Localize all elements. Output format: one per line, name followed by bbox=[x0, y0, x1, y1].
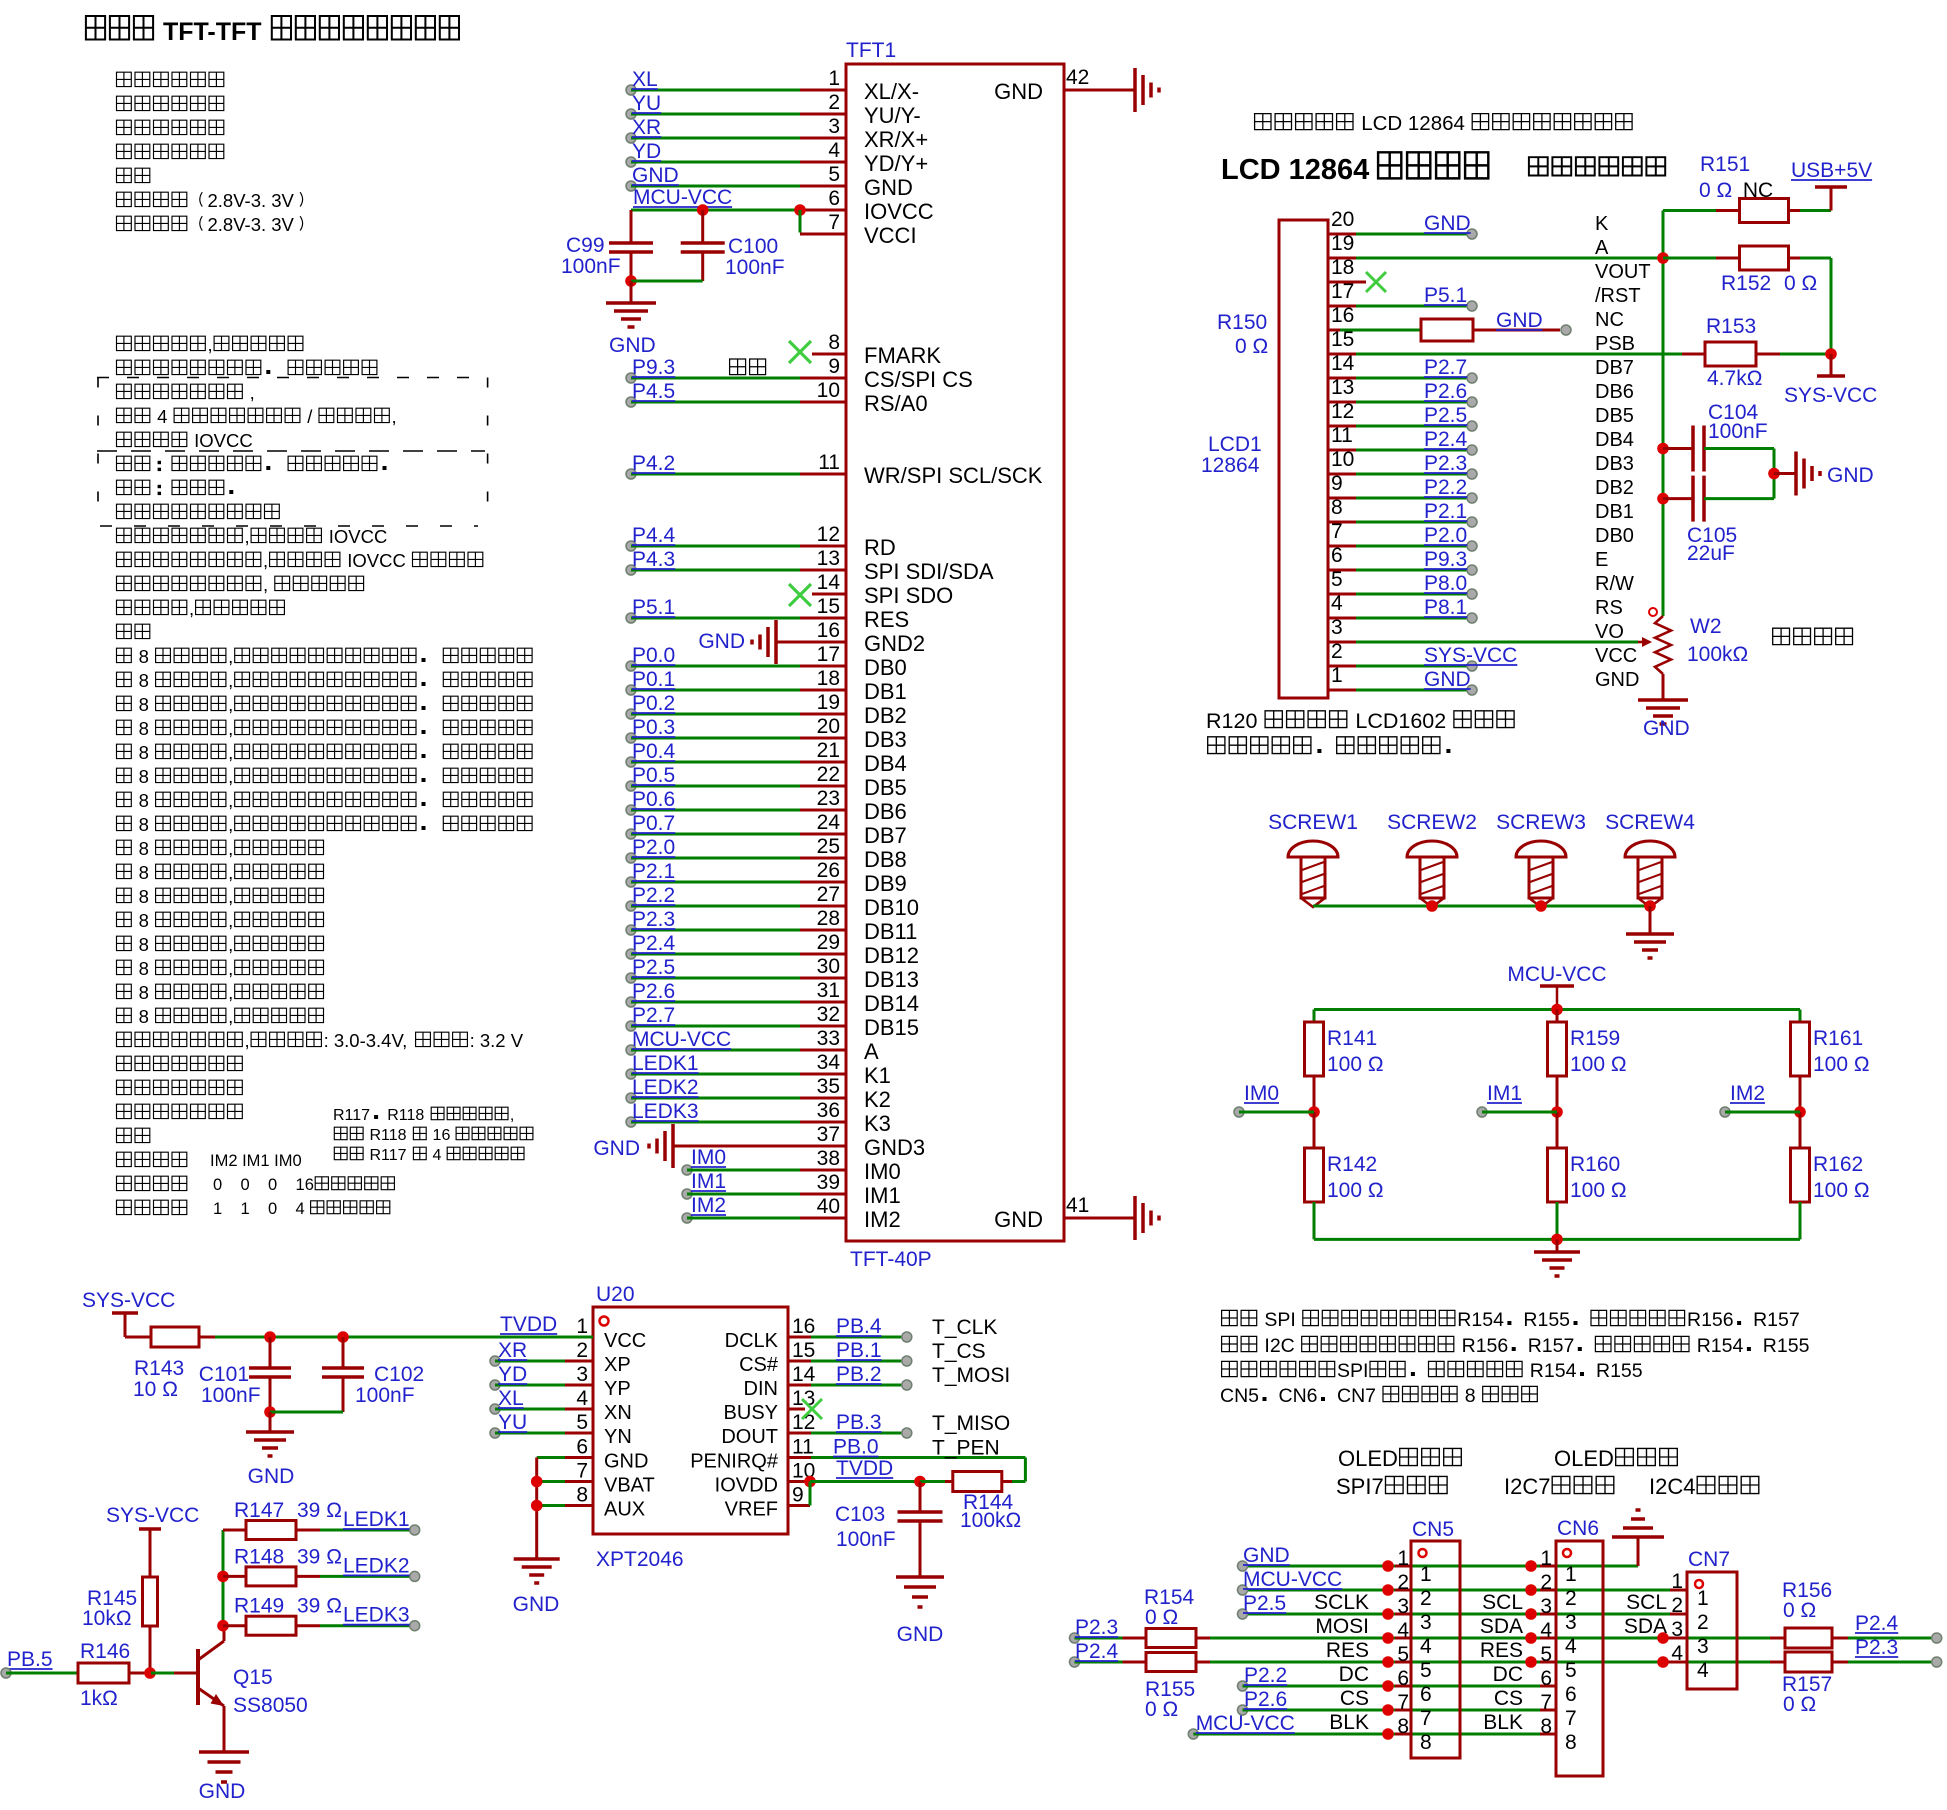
svg-text:K2: K2 bbox=[864, 1087, 891, 1112]
svg-text:5: 5 bbox=[1420, 1659, 1432, 1682]
svg-text:100kΩ: 100kΩ bbox=[960, 1509, 1021, 1532]
svg-text:,: , bbox=[228, 886, 233, 907]
svg-text:,: , bbox=[263, 574, 273, 595]
svg-text:,: , bbox=[228, 766, 233, 787]
svg-text:TFT-40P: TFT-40P bbox=[850, 1248, 932, 1271]
svg-text:11: 11 bbox=[792, 1436, 814, 1459]
svg-text:/RST: /RST bbox=[1595, 285, 1641, 307]
svg-text:VO: VO bbox=[1595, 621, 1624, 643]
svg-text:T_CLK: T_CLK bbox=[932, 1316, 997, 1339]
svg-text:0 0 0 16: 0 0 0 16 bbox=[213, 1176, 314, 1194]
svg-text:10kΩ: 10kΩ bbox=[82, 1607, 132, 1630]
svg-text:IM0: IM0 bbox=[864, 1159, 901, 1184]
svg-text:DB3: DB3 bbox=[1595, 453, 1634, 475]
svg-text:LEDK3: LEDK3 bbox=[343, 1604, 410, 1627]
svg-text:16: 16 bbox=[817, 619, 840, 642]
svg-text:P9.3: P9.3 bbox=[1424, 548, 1467, 571]
svg-text:P0.5: P0.5 bbox=[632, 764, 675, 787]
svg-text:GND: GND bbox=[897, 1623, 944, 1646]
svg-text:16: 16 bbox=[428, 1127, 455, 1144]
svg-text:DB4: DB4 bbox=[1595, 429, 1634, 451]
svg-text:4: 4 bbox=[428, 1147, 446, 1164]
svg-text:YD/Y+: YD/Y+ bbox=[864, 151, 928, 176]
svg-text:P0.2: P0.2 bbox=[632, 692, 675, 715]
svg-text:IOVCC: IOVCC bbox=[864, 199, 934, 224]
svg-text:GND2: GND2 bbox=[864, 631, 925, 656]
svg-text:P0.4: P0.4 bbox=[632, 740, 676, 763]
svg-text:P2.4: P2.4 bbox=[1424, 428, 1468, 451]
svg-text:XP: XP bbox=[604, 1354, 631, 1376]
svg-text:7: 7 bbox=[1565, 1707, 1577, 1730]
svg-text:DB12: DB12 bbox=[864, 943, 919, 968]
svg-text:39: 39 bbox=[817, 1171, 840, 1194]
svg-text:R/W: R/W bbox=[1595, 573, 1634, 595]
svg-text:3: 3 bbox=[1540, 1595, 1552, 1618]
svg-text:MCU-VCC: MCU-VCC bbox=[632, 1028, 731, 1051]
svg-text:24: 24 bbox=[817, 811, 841, 834]
svg-text:RS: RS bbox=[1595, 597, 1623, 619]
svg-text:R150: R150 bbox=[1217, 311, 1267, 334]
svg-text:13: 13 bbox=[817, 547, 840, 570]
svg-text:SYS-VCC: SYS-VCC bbox=[106, 1504, 199, 1527]
svg-text:P2.4: P2.4 bbox=[1075, 1640, 1119, 1663]
svg-text:8: 8 bbox=[134, 646, 155, 667]
svg-text:1: 1 bbox=[576, 1315, 588, 1338]
svg-text:9: 9 bbox=[792, 1484, 804, 1507]
svg-text:DB0: DB0 bbox=[864, 655, 907, 680]
svg-text:,: , bbox=[228, 742, 233, 763]
svg-text:4: 4 bbox=[1540, 1619, 1552, 1642]
svg-text:P2.7: P2.7 bbox=[632, 1004, 675, 1027]
svg-text:DC: DC bbox=[1339, 1663, 1369, 1686]
svg-text:Q15: Q15 bbox=[233, 1666, 273, 1689]
svg-text:42: 42 bbox=[1066, 66, 1089, 89]
svg-text:MCU-VCC: MCU-VCC bbox=[633, 186, 732, 209]
svg-text:100 Ω: 100 Ω bbox=[1570, 1179, 1627, 1202]
svg-text:21: 21 bbox=[817, 739, 840, 762]
svg-text:P8.1: P8.1 bbox=[1424, 596, 1467, 619]
svg-text:GND3: GND3 bbox=[864, 1135, 925, 1160]
svg-text:8: 8 bbox=[134, 1006, 155, 1027]
svg-text:SYS-VCC: SYS-VCC bbox=[82, 1289, 175, 1312]
svg-text:DB1: DB1 bbox=[864, 679, 907, 704]
svg-text:6: 6 bbox=[1540, 1667, 1552, 1690]
svg-text:SYS-VCC: SYS-VCC bbox=[1424, 644, 1517, 667]
svg-text:DB0: DB0 bbox=[1595, 525, 1634, 547]
svg-text:25: 25 bbox=[817, 835, 840, 858]
svg-text:4: 4 bbox=[1397, 1619, 1409, 1642]
svg-text:2: 2 bbox=[1697, 1611, 1709, 1634]
svg-text:GND: GND bbox=[1496, 309, 1543, 332]
svg-text:WR/SPI SCL/SCK: WR/SPI SCL/SCK bbox=[864, 463, 1043, 488]
svg-text:SPI SDO: SPI SDO bbox=[864, 583, 953, 608]
svg-text:MCU-VCC: MCU-VCC bbox=[1243, 1568, 1342, 1591]
svg-text:T_CS: T_CS bbox=[932, 1340, 986, 1363]
svg-text:1: 1 bbox=[828, 67, 840, 90]
svg-text:100 Ω: 100 Ω bbox=[1327, 1179, 1384, 1202]
svg-text:P2.5: P2.5 bbox=[1424, 404, 1467, 427]
svg-text:SDA: SDA bbox=[1624, 1615, 1667, 1638]
svg-text:IM1: IM1 bbox=[691, 1170, 726, 1193]
svg-text:DB2: DB2 bbox=[1595, 477, 1634, 499]
svg-text:,: , bbox=[263, 550, 268, 571]
svg-text:P2.1: P2.1 bbox=[632, 860, 675, 883]
svg-text:0 Ω: 0 Ω bbox=[1699, 179, 1732, 202]
svg-text:R157: R157 bbox=[1753, 1309, 1800, 1331]
svg-text:P2.6: P2.6 bbox=[632, 980, 675, 1003]
svg-text:R149: R149 bbox=[234, 1595, 284, 1618]
svg-text:,: , bbox=[228, 646, 233, 667]
svg-text:3: 3 bbox=[828, 115, 840, 138]
svg-text:8: 8 bbox=[134, 694, 155, 715]
svg-text:LEDK2: LEDK2 bbox=[343, 1554, 410, 1577]
svg-text:P4.3: P4.3 bbox=[632, 548, 675, 571]
svg-text:P2.5: P2.5 bbox=[632, 956, 675, 979]
svg-text:CN7: CN7 bbox=[1337, 1385, 1381, 1407]
svg-text:SCL: SCL bbox=[1626, 1591, 1667, 1614]
svg-text:,: , bbox=[228, 982, 233, 1003]
svg-text:R153: R153 bbox=[1706, 315, 1756, 338]
svg-text:14: 14 bbox=[817, 571, 841, 594]
svg-text:SCREW4: SCREW4 bbox=[1605, 811, 1695, 834]
svg-text:: 3.0-3.4V,: : 3.0-3.4V, bbox=[324, 1030, 413, 1051]
svg-text:38: 38 bbox=[817, 1147, 840, 1170]
svg-text:K1: K1 bbox=[864, 1063, 891, 1088]
svg-text:IOVCC: IOVCC bbox=[324, 526, 388, 547]
svg-text:P2.3: P2.3 bbox=[632, 908, 675, 931]
svg-text:DB2: DB2 bbox=[864, 703, 907, 728]
svg-text:20: 20 bbox=[1331, 208, 1354, 231]
svg-text:,: , bbox=[228, 790, 233, 811]
svg-text:DB13: DB13 bbox=[864, 967, 919, 992]
svg-text:C99: C99 bbox=[566, 234, 605, 257]
svg-text:,: , bbox=[228, 814, 233, 835]
svg-text:CS: CS bbox=[1340, 1687, 1369, 1710]
svg-text:TVDD: TVDD bbox=[500, 1313, 557, 1336]
svg-text:R143: R143 bbox=[134, 1357, 184, 1380]
svg-text:RES: RES bbox=[1326, 1639, 1369, 1662]
svg-text:T_MISO: T_MISO bbox=[932, 1412, 1010, 1435]
svg-text:R117: R117 bbox=[365, 1147, 411, 1164]
svg-text:17: 17 bbox=[817, 643, 840, 666]
svg-text:RES: RES bbox=[864, 607, 909, 632]
svg-text:P5.1: P5.1 bbox=[632, 596, 675, 619]
svg-text:1: 1 bbox=[1420, 1563, 1432, 1586]
svg-text:DB11: DB11 bbox=[864, 919, 917, 944]
svg-text:0 Ω: 0 Ω bbox=[1235, 335, 1268, 358]
svg-text:K: K bbox=[1595, 213, 1609, 235]
svg-text:DB9: DB9 bbox=[864, 871, 907, 896]
svg-text:W2: W2 bbox=[1690, 615, 1722, 638]
svg-text:CS: CS bbox=[1494, 1687, 1523, 1710]
svg-text:R162: R162 bbox=[1813, 1153, 1863, 1176]
svg-text:AUX: AUX bbox=[604, 1499, 645, 1521]
svg-text:SCREW1: SCREW1 bbox=[1268, 811, 1358, 834]
svg-text:7: 7 bbox=[1397, 1691, 1409, 1714]
svg-text:5: 5 bbox=[828, 163, 840, 186]
svg-text:E: E bbox=[1595, 549, 1608, 571]
svg-text:C100: C100 bbox=[728, 235, 778, 258]
svg-text:4: 4 bbox=[152, 406, 173, 427]
svg-text:P2.1: P2.1 bbox=[1424, 500, 1467, 523]
svg-text:GND: GND bbox=[1424, 668, 1471, 691]
svg-text:P0.7: P0.7 bbox=[632, 812, 675, 835]
svg-text:P0.1: P0.1 bbox=[632, 668, 675, 691]
svg-text:4: 4 bbox=[1565, 1635, 1577, 1658]
svg-text:DIN: DIN bbox=[744, 1378, 778, 1400]
svg-text:SDA: SDA bbox=[1480, 1615, 1523, 1638]
svg-text:0 Ω: 0 Ω bbox=[1784, 272, 1817, 295]
svg-text:RES: RES bbox=[1480, 1639, 1523, 1662]
svg-text:7: 7 bbox=[576, 1460, 588, 1483]
svg-text:3: 3 bbox=[1565, 1611, 1577, 1634]
svg-text:C101: C101 bbox=[199, 1363, 249, 1386]
svg-text:R160: R160 bbox=[1570, 1153, 1620, 1176]
svg-text:R146: R146 bbox=[80, 1640, 130, 1663]
svg-text:LCD1: LCD1 bbox=[1208, 433, 1262, 456]
svg-text:XN: XN bbox=[604, 1402, 632, 1424]
svg-text:0 Ω: 0 Ω bbox=[1145, 1698, 1178, 1721]
svg-text:GND: GND bbox=[513, 1593, 560, 1616]
svg-text:SCLK: SCLK bbox=[1314, 1591, 1369, 1614]
svg-text:R147: R147 bbox=[234, 1499, 284, 1522]
svg-text:,: , bbox=[228, 670, 233, 691]
svg-text:,: , bbox=[228, 1006, 233, 1027]
svg-text:30: 30 bbox=[817, 955, 840, 978]
svg-text:/: / bbox=[302, 406, 317, 427]
svg-text:A: A bbox=[1595, 237, 1609, 259]
svg-text:DB6: DB6 bbox=[864, 799, 907, 824]
svg-text:IOVCC: IOVCC bbox=[189, 430, 253, 451]
svg-text:RS/A0: RS/A0 bbox=[864, 391, 928, 416]
svg-text:IOVDD: IOVDD bbox=[715, 1475, 778, 1497]
svg-text:OLED: OLED bbox=[1338, 1446, 1398, 1471]
svg-text:3: 3 bbox=[1397, 1595, 1409, 1618]
svg-text:SPI7: SPI7 bbox=[1336, 1474, 1384, 1499]
svg-text:DC: DC bbox=[1493, 1663, 1523, 1686]
svg-text:R155: R155 bbox=[1596, 1360, 1643, 1382]
svg-text:4.7kΩ: 4.7kΩ bbox=[1707, 367, 1762, 390]
svg-text:DB5: DB5 bbox=[864, 775, 907, 800]
svg-text:GND: GND bbox=[1643, 717, 1690, 740]
svg-text:6: 6 bbox=[1397, 1667, 1409, 1690]
svg-text:PB.5: PB.5 bbox=[7, 1648, 53, 1671]
svg-text:MOSI: MOSI bbox=[1315, 1615, 1369, 1638]
svg-text:A: A bbox=[864, 1039, 879, 1064]
svg-text:1 1 0 4: 1 1 0 4 bbox=[213, 1200, 309, 1218]
svg-text:,: , bbox=[228, 694, 233, 715]
svg-text:R120: R120 bbox=[1206, 709, 1263, 733]
svg-text:100kΩ: 100kΩ bbox=[1687, 643, 1748, 666]
svg-text:19: 19 bbox=[817, 691, 840, 714]
svg-text:YN: YN bbox=[604, 1426, 632, 1448]
svg-text:R117: R117 bbox=[333, 1107, 370, 1124]
svg-text:GND: GND bbox=[1243, 1544, 1290, 1567]
svg-text:IM2: IM2 bbox=[864, 1207, 901, 1232]
svg-text:PB.3: PB.3 bbox=[836, 1411, 882, 1434]
svg-text:6: 6 bbox=[576, 1436, 588, 1459]
svg-text:XR/X+: XR/X+ bbox=[864, 127, 928, 152]
svg-text:RD: RD bbox=[864, 535, 896, 560]
svg-text:DB3: DB3 bbox=[864, 727, 907, 752]
svg-text:8: 8 bbox=[134, 790, 155, 811]
svg-text:100nF: 100nF bbox=[561, 255, 621, 278]
svg-text:3: 3 bbox=[576, 1363, 588, 1386]
svg-text:YD: YD bbox=[632, 140, 661, 163]
svg-text:2: 2 bbox=[576, 1339, 588, 1362]
svg-text:32: 32 bbox=[817, 1003, 840, 1026]
svg-text:GND: GND bbox=[609, 334, 656, 357]
svg-text:4: 4 bbox=[1697, 1659, 1709, 1682]
svg-text:P0.0: P0.0 bbox=[632, 644, 675, 667]
svg-text:VREF: VREF bbox=[725, 1499, 778, 1521]
svg-text:2: 2 bbox=[1671, 1594, 1683, 1617]
svg-text:12864: 12864 bbox=[1201, 454, 1260, 477]
svg-text:CN6: CN6 bbox=[1279, 1385, 1318, 1407]
svg-text:CN5: CN5 bbox=[1412, 1518, 1454, 1541]
svg-text:SCL: SCL bbox=[1482, 1591, 1523, 1614]
svg-text:PB.0: PB.0 bbox=[833, 1436, 879, 1459]
svg-text:0 Ω: 0 Ω bbox=[1783, 1693, 1816, 1716]
svg-text:34: 34 bbox=[817, 1051, 841, 1074]
svg-text:LCD1602: LCD1602 bbox=[1349, 709, 1452, 733]
svg-text:2.8V-3. 3V: 2.8V-3. 3V bbox=[208, 214, 295, 235]
svg-text:I2C7: I2C7 bbox=[1504, 1474, 1550, 1499]
svg-text:R154: R154 bbox=[1457, 1309, 1504, 1331]
svg-text:P2.2: P2.2 bbox=[632, 884, 675, 907]
svg-text:DB4: DB4 bbox=[864, 751, 907, 776]
svg-text:VOUT: VOUT bbox=[1595, 261, 1651, 283]
svg-text:R142: R142 bbox=[1327, 1153, 1377, 1176]
svg-text:NC: NC bbox=[1595, 309, 1624, 331]
svg-text:U20: U20 bbox=[596, 1283, 635, 1306]
svg-text:DB14: DB14 bbox=[864, 991, 919, 1016]
svg-text:4: 4 bbox=[1671, 1642, 1683, 1665]
svg-text:5: 5 bbox=[576, 1411, 588, 1434]
svg-text:4: 4 bbox=[1420, 1635, 1432, 1658]
svg-text:VCC: VCC bbox=[604, 1330, 646, 1352]
svg-text:PB.2: PB.2 bbox=[836, 1363, 882, 1386]
svg-text:,: , bbox=[392, 406, 397, 427]
svg-text:39 Ω: 39 Ω bbox=[297, 1595, 342, 1618]
svg-text:100nF: 100nF bbox=[836, 1528, 896, 1551]
svg-text:YU: YU bbox=[498, 1411, 527, 1434]
svg-text:14: 14 bbox=[792, 1363, 816, 1386]
svg-text:MCU-VCC: MCU-VCC bbox=[1507, 963, 1606, 986]
svg-text:15: 15 bbox=[817, 595, 840, 618]
svg-text:CS/SPI CS: CS/SPI CS bbox=[864, 367, 973, 392]
svg-text:R156: R156 bbox=[1456, 1335, 1508, 1357]
svg-text:DB1: DB1 bbox=[1595, 501, 1634, 523]
svg-text:7: 7 bbox=[828, 211, 840, 234]
svg-text:,: , bbox=[510, 1107, 514, 1124]
svg-text:XL: XL bbox=[498, 1387, 524, 1410]
svg-text:,: , bbox=[228, 862, 233, 883]
svg-text:P4.5: P4.5 bbox=[632, 380, 675, 403]
svg-text:LEDK2: LEDK2 bbox=[632, 1076, 699, 1099]
svg-text:6: 6 bbox=[1565, 1683, 1577, 1706]
svg-text:R148: R148 bbox=[234, 1545, 284, 1568]
svg-text:8: 8 bbox=[134, 886, 155, 907]
svg-text:IM2 IM1 IM0: IM2 IM1 IM0 bbox=[210, 1152, 302, 1170]
svg-text:2.8V-3. 3V: 2.8V-3. 3V bbox=[208, 190, 295, 211]
svg-text:,: , bbox=[245, 526, 250, 547]
svg-text:39 Ω: 39 Ω bbox=[297, 1545, 342, 1568]
svg-text:I2C: I2C bbox=[1259, 1335, 1300, 1357]
svg-text:,: , bbox=[228, 910, 233, 931]
svg-text:R118: R118 bbox=[365, 1127, 411, 1144]
svg-text:K3: K3 bbox=[864, 1111, 891, 1136]
svg-text:SYS-VCC: SYS-VCC bbox=[1784, 384, 1877, 407]
svg-text:C103: C103 bbox=[835, 1503, 885, 1526]
svg-text:31: 31 bbox=[817, 979, 840, 1002]
svg-text:CS#: CS# bbox=[739, 1354, 779, 1376]
svg-text:USB+5V: USB+5V bbox=[1791, 159, 1872, 182]
svg-text:GND: GND bbox=[199, 1780, 246, 1803]
svg-text:R159: R159 bbox=[1570, 1027, 1620, 1050]
svg-text:100 Ω: 100 Ω bbox=[1813, 1179, 1870, 1202]
svg-text:8: 8 bbox=[134, 718, 155, 739]
svg-text:40: 40 bbox=[817, 1195, 840, 1218]
svg-text:DB15: DB15 bbox=[864, 1015, 919, 1040]
svg-text:R151: R151 bbox=[1700, 153, 1750, 176]
svg-text:T_PEN: T_PEN bbox=[932, 1437, 1000, 1460]
svg-text:YU: YU bbox=[632, 92, 661, 115]
svg-text:I2C4: I2C4 bbox=[1649, 1474, 1695, 1499]
svg-text:1: 1 bbox=[1671, 1570, 1683, 1593]
svg-text:5: 5 bbox=[1565, 1659, 1577, 1682]
svg-text:P2.2: P2.2 bbox=[1424, 476, 1467, 499]
svg-text:CN5: CN5 bbox=[1220, 1385, 1259, 1407]
svg-text:R141: R141 bbox=[1327, 1027, 1377, 1050]
svg-text:T_MOSI: T_MOSI bbox=[932, 1364, 1010, 1387]
svg-text:LEDK1: LEDK1 bbox=[343, 1508, 410, 1531]
svg-text:SPI: SPI bbox=[1259, 1309, 1301, 1331]
svg-text:8: 8 bbox=[134, 814, 155, 835]
svg-text:8: 8 bbox=[134, 766, 155, 787]
svg-text:8: 8 bbox=[828, 331, 840, 354]
svg-text:2: 2 bbox=[1565, 1587, 1577, 1610]
svg-text:36: 36 bbox=[817, 1099, 840, 1122]
svg-text:DB10: DB10 bbox=[864, 895, 919, 920]
svg-text:3: 3 bbox=[1420, 1611, 1432, 1634]
svg-text:SCREW2: SCREW2 bbox=[1387, 811, 1477, 834]
svg-text:P2.6: P2.6 bbox=[1424, 380, 1467, 403]
svg-text:CN6: CN6 bbox=[1557, 1517, 1599, 1540]
svg-text:8: 8 bbox=[134, 670, 155, 691]
svg-text:9: 9 bbox=[828, 355, 840, 378]
svg-text:XR: XR bbox=[498, 1339, 527, 1362]
svg-text:8: 8 bbox=[1565, 1731, 1577, 1754]
svg-text:DB8: DB8 bbox=[864, 847, 907, 872]
svg-text:R156: R156 bbox=[1687, 1309, 1734, 1331]
svg-text:SS8050: SS8050 bbox=[233, 1694, 308, 1717]
svg-text:8: 8 bbox=[134, 982, 155, 1003]
svg-text:P2.4: P2.4 bbox=[1855, 1612, 1899, 1635]
svg-text:3: 3 bbox=[1697, 1635, 1709, 1658]
svg-text:P2.0: P2.0 bbox=[632, 836, 675, 859]
svg-text:8: 8 bbox=[1397, 1715, 1409, 1738]
svg-text:12: 12 bbox=[817, 523, 840, 546]
svg-text:BLK: BLK bbox=[1329, 1711, 1369, 1734]
svg-text:GND: GND bbox=[1424, 212, 1471, 235]
svg-text:27: 27 bbox=[817, 883, 840, 906]
svg-text:R154: R154 bbox=[1524, 1360, 1576, 1382]
svg-text:XL: XL bbox=[632, 68, 658, 91]
svg-text:10 Ω: 10 Ω bbox=[133, 1378, 178, 1401]
svg-text:SPI SDI/SDA: SPI SDI/SDA bbox=[864, 559, 994, 584]
svg-text:R161: R161 bbox=[1813, 1027, 1863, 1050]
